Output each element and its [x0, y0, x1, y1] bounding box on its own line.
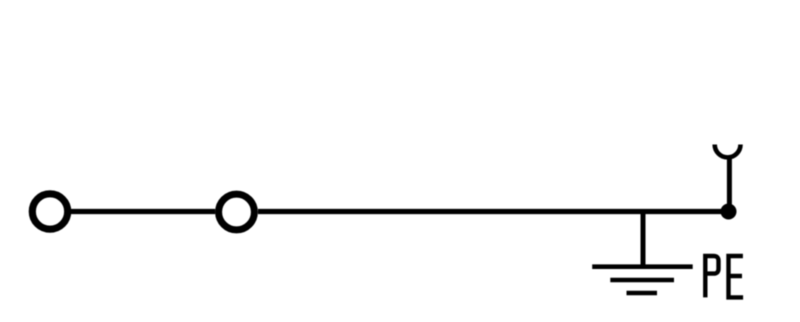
wire	[727, 159, 732, 212]
wire	[71, 209, 215, 214]
net label PE	[705, 256, 743, 297]
ground	[592, 267, 693, 293]
wire	[258, 209, 729, 214]
wire	[641, 212, 646, 267]
plug contact symbol	[715, 145, 741, 158]
junction dot	[721, 204, 737, 220]
terminal circle 2	[219, 194, 255, 230]
terminal circle 1	[32, 194, 67, 229]
